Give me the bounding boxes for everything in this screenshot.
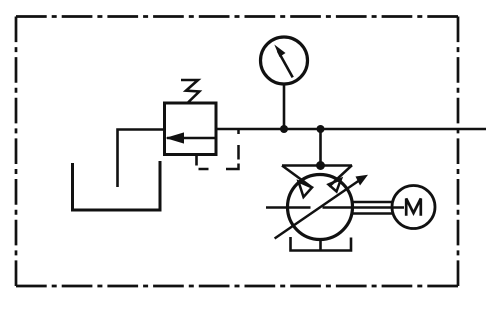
- relief valve V1 body: [165, 103, 217, 155]
- pilot line stub (solid) from valve bottom: [195, 155, 198, 166]
- pilot line (dashed) to pressure line: [199, 129, 239, 170]
- junction dot on pump port line: [316, 161, 325, 170]
- relief valve flow arrow: [167, 133, 215, 143]
- shaft lower line: [352, 212, 393, 215]
- pump P1 circle: [288, 175, 353, 240]
- bracket center tick: [319, 240, 322, 251]
- wire: pressure line down to pump: [319, 129, 322, 166]
- pressure line (main): [216, 128, 486, 131]
- electric motor M1: [392, 186, 435, 229]
- shaft upper line: [352, 201, 393, 204]
- pump mounting bracket: [291, 237, 352, 251]
- wire: gauge stem: [283, 84, 286, 129]
- enclosure boundary (dash-dot frame): [16, 17, 458, 287]
- wire: relief valve left port to tank: [118, 130, 165, 188]
- pressure gauge G1: [261, 37, 308, 84]
- junction dot (gauge / pressure line): [280, 125, 288, 133]
- pump port line (top horizontal): [282, 164, 352, 167]
- variable displacement arrow through pump: [275, 175, 368, 239]
- junction dot (pump branch / pressure line): [317, 125, 325, 133]
- pump flow direction left (line + open arrowhead): [282, 166, 312, 198]
- tank T1: [73, 161, 161, 210]
- spring (zigzag) on relief valve: [181, 80, 199, 103]
- pump centerline (right segment to motor): [323, 206, 405, 209]
- pump flow direction right (line + open arrowhead): [329, 165, 353, 191]
- pump centerline (left segment): [266, 206, 311, 209]
